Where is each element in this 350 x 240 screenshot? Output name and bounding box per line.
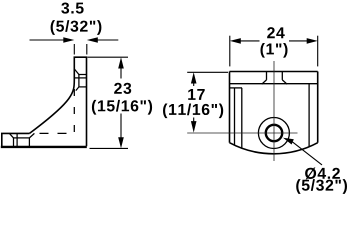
- dim text 24: [267, 27, 285, 38]
- dim text 3.5: [61, 2, 83, 13]
- dim text (11/16"): [163, 103, 223, 118]
- dim text (5/32"): [51, 20, 102, 35]
- hidden edge dashed horizontal: [40, 132, 75, 134]
- dim 3.5 right arrow: [98, 39, 119, 41]
- dim 23 down arrow: [120, 114, 122, 138]
- bottom hole detail (countersunk hole in horizontal flange): [9, 133, 34, 146]
- dim 23 up arrow: [120, 68, 122, 79]
- right view: inner vertical left b: [241, 88, 243, 148]
- dim 23 bottom extension line: [90, 147, 129, 149]
- left view: thick bottom edge: [1, 146, 87, 148]
- right view: left edge: [229, 72, 231, 143]
- label (5/32"): [296, 179, 347, 194]
- dim 17 top extension line: [187, 71, 228, 73]
- vertical centerline: [273, 61, 275, 161]
- dim 24 extension lines: [230, 36, 318, 67]
- dim 17 up arrow: [193, 83, 195, 86]
- dim text (15/16"): [92, 100, 152, 115]
- right view: top edge: [230, 72, 318, 154]
- dim text (1"): [260, 43, 287, 58]
- left view: bracket side profile outline: [2, 57, 87, 146]
- leader arrowhead: [283, 138, 294, 145]
- hole outer circle (countersink): [258, 118, 289, 149]
- right view: countersink top detail: [262, 72, 287, 85]
- dim text 23: [114, 83, 131, 94]
- right view: bottom arc: [230, 143, 318, 154]
- right view: fold line 2: [230, 83, 318, 85]
- dim 3.5 extension lines: [74, 44, 87, 55]
- right view: flange edge line 3: [230, 87, 243, 89]
- right view: inner vertical right: [308, 84, 310, 147]
- web curve: [30, 79, 75, 133]
- right view: right edge: [317, 72, 319, 143]
- dim 24 left arrow: [240, 40, 260, 42]
- label Ø4.2: [305, 167, 340, 179]
- right view: inner vertical left a: [234, 88, 236, 145]
- dim 24 right arrow: [289, 40, 308, 42]
- top hole detail (countersunk hole in vertical flange): [74, 69, 86, 91]
- dim text 17: [188, 89, 204, 100]
- horizontal centerline / dim 17 bottom extension: [187, 132, 297, 134]
- leader line to hole: [293, 142, 323, 165]
- dim 23 top extension line: [88, 56, 129, 58]
- dim 3.5 left arrow: [30, 39, 65, 41]
- dim 17 down arrow: [193, 118, 195, 122]
- hole inner circle Ø4.2: [266, 125, 282, 141]
- hidden edge dashed vertical: [73, 89, 75, 133]
